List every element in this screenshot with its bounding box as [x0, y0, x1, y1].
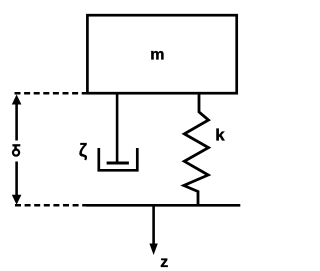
svg-text:m: m — [150, 47, 164, 64]
svg-text:ζ: ζ — [79, 141, 87, 162]
svg-text:k: k — [215, 126, 225, 145]
svg-text:z: z — [160, 254, 168, 271]
